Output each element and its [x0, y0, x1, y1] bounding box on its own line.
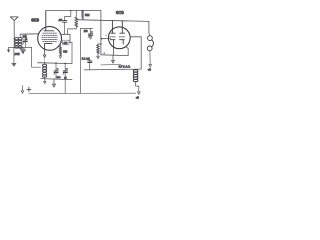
trimmer capacitor C4 (padder): [81, 28, 93, 39]
wire: oscillator tank top: [38, 62, 72, 65]
tube V2 6C8: [108, 27, 130, 49]
resistor R2 (50M): [81, 11, 83, 20]
wire: cathode bus V2: [101, 54, 128, 57]
wire: B- ground rail: [29, 92, 136, 94]
V2 grid wire (left): [102, 38, 111, 40]
svg-text:465: 465: [63, 42, 68, 45]
svg-text:6C8: 6C8: [116, 10, 124, 15]
variable capacitor C6 (osc tuning): [54, 62, 58, 79]
coil L1 primary (antenna coil): [15, 38, 19, 49]
wire: screen feed y20: [77, 19, 101, 22]
V1 plate lead: [44, 11, 54, 31]
node (osc coil tap): [44, 62, 45, 63]
wire: heater bus upper: [101, 63, 121, 66]
crystal X1 (boxed 465): [61, 40, 72, 45]
node mark (V2 grid): [105, 35, 106, 36]
resistor R1 (osc grid leak): [68, 11, 78, 35]
V2 plate 1: [111, 21, 115, 34]
V2 grids (dashed): [110, 36, 126, 38]
antenna ANT: [10, 17, 18, 48]
capacitor C3 (.05 coupling): [63, 11, 71, 35]
node dot (osc branch): [70, 10, 71, 11]
coil L1 secondary: [18, 34, 22, 49]
resistor R3 (cathode bias): [97, 43, 102, 58]
phones P: [147, 21, 153, 67]
node (cathode bus): [104, 53, 105, 54]
ground arrow (tank bottom left): [8, 47, 10, 52]
coil L2 (oscillator): [43, 63, 47, 79]
wire: oscillator tank bottom: [41, 79, 72, 80]
wire: heater bus lower: [84, 68, 141, 71]
coil L3 (output choke): [133, 69, 140, 94]
wire: plate of V1 to mixer output: [60, 34, 70, 42]
variable capacitor C7 (padder): [63, 63, 67, 94]
wire: plate feed to V2: [101, 20, 149, 21]
svg-text:50M: 50M: [85, 15, 90, 17]
svg-text:0.1 mf.: 0.1 mf.: [82, 57, 90, 61]
svg-text:365: 365: [23, 36, 28, 39]
node dot (R2 branch): [82, 10, 83, 11]
battery minus arrow (rail left): [21, 86, 24, 94]
ground arrow below tank (left): [44, 79, 46, 84]
wire: tank bottom: [9, 46, 32, 48]
resistor R4 (V1 cathode, 300): [59, 44, 62, 59]
wire: B+ top line: [46, 10, 101, 12]
V2 cathode lead 2 to bus: [126, 47, 128, 56]
V2 cathode lead 1 to bus: [113, 48, 115, 55]
V2 cathode 1: [110, 40, 115, 49]
wire: from crystal area down to tank: [71, 42, 73, 63]
V2 plate 2: [120, 21, 125, 33]
svg-text:6K8: 6K8: [31, 18, 39, 23]
wire: V2 plate 2 to output: [130, 37, 141, 69]
svg-text:+B: +B: [148, 69, 151, 72]
arrow: cathode bus to ground rail: [112, 55, 115, 63]
V1 cathode: [45, 43, 52, 50]
V1 grids (dashed): [42, 33, 58, 41]
capacitor C2 (.005 bypass): [21, 47, 25, 53]
wire: AVC return (long vertical): [80, 28, 82, 93]
wire: tank top to grid of V1: [20, 33, 39, 35]
wire: tank right side down to oscillator section: [32, 47, 41, 67]
variable capacitor C1 (tuning): [23, 34, 27, 47]
V2 cathode 2: [120, 40, 125, 44]
ground (antenna coil return): [12, 47, 16, 65]
svg-text:.005: .005: [14, 52, 20, 56]
svg-text:.05: .05: [58, 18, 62, 22]
svg-text:+B: +B: [136, 97, 139, 100]
ground arrow below tank (right): [53, 79, 56, 87]
capacitor C5 (0.1 mf): [88, 59, 92, 70]
cathode arrow to oscillator tank: [43, 50, 46, 57]
svg-text:6.3 V. A.C.: 6.3 V. A.C.: [119, 65, 131, 68]
wire: B+ corner down: [100, 11, 102, 55]
tube V1 6K8: [38, 27, 62, 51]
plus mark: [27, 87, 31, 91]
